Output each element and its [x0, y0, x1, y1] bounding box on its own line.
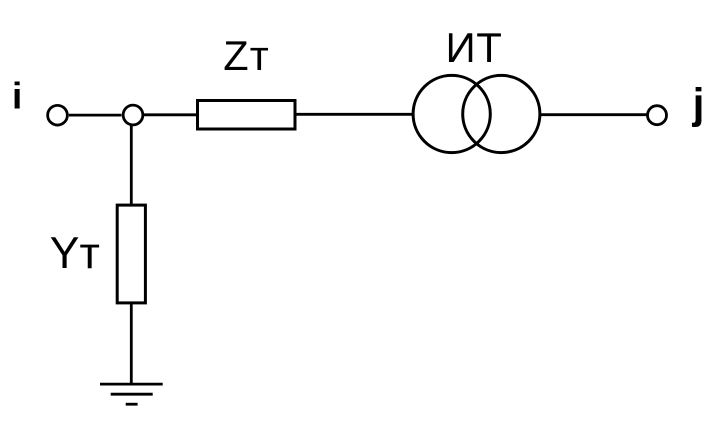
svg-text:j: j	[692, 81, 705, 128]
admittance Yт (vertical resistor)	[117, 205, 145, 303]
wire: junction to resistor Zт	[144, 113, 198, 116]
svg-text:i: i	[12, 76, 22, 117]
svg-text:ИТ: ИТ	[446, 24, 503, 71]
svg-text:Zт: Zт	[223, 32, 270, 79]
resistor Zт	[198, 101, 296, 130]
wire: terminal i to junction	[69, 114, 122, 117]
transformer ИТ secondary winding	[463, 75, 540, 152]
terminal i	[48, 105, 68, 125]
wire: transformer to terminal j	[541, 113, 647, 116]
svg-text:Yт: Yт	[50, 229, 100, 278]
terminal j	[648, 106, 667, 125]
transformer ИТ primary winding	[413, 75, 490, 152]
junction node	[123, 105, 143, 125]
wire: admittance Yт to ground	[130, 303, 133, 384]
ground	[100, 384, 163, 404]
wire: junction to admittance Yт	[130, 124, 133, 205]
wire: resistor Zт to transformer	[297, 113, 413, 116]
